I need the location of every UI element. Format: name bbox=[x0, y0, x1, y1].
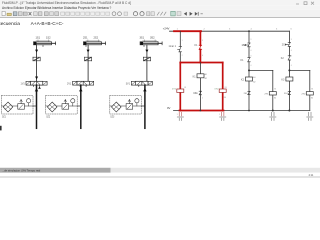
svg-text:1: 1 bbox=[219, 114, 220, 116]
valve 3V1 (5/2 way) bbox=[126, 81, 153, 86]
limit switch 2S2 bbox=[285, 43, 291, 47]
relay coil K3 bbox=[281, 77, 293, 82]
pin number specks bbox=[182, 39, 314, 99]
start button 1mar1 bbox=[178, 46, 182, 52]
filter bbox=[3, 102, 13, 112]
toolbar bbox=[0, 10, 320, 18]
junction dots bottom bbox=[200, 110, 202, 112]
svg-text:0V: 0V bbox=[167, 106, 171, 110]
air service unit 0Z2 (dashed box) bbox=[46, 96, 81, 119]
title bar bbox=[0, 0, 320, 5]
cylinder 1A1 bbox=[34, 40, 56, 45]
air service unit 0Z3 (dashed box) bbox=[110, 96, 145, 119]
svg-text:2S2: 2S2 bbox=[94, 36, 99, 40]
contact 2S1 on rung D bbox=[248, 91, 251, 94]
rung numbers bbox=[177, 28, 293, 30]
bottom rail black bbox=[174, 110, 310, 112]
svg-text:0Z3: 0Z3 bbox=[110, 117, 115, 119]
svg-text:83: 83 bbox=[225, 87, 227, 89]
flow control valve 1V2 bbox=[33, 57, 40, 61]
svg-text:3V1: 3V1 bbox=[126, 83, 131, 86]
svg-text:+24V: +24V bbox=[163, 26, 170, 30]
svg-text:1: 1 bbox=[177, 114, 178, 116]
svg-text:1S1: 1S1 bbox=[193, 91, 198, 95]
rung A lower red wire bbox=[179, 63, 181, 111]
terminal symbol below rail at 1Y1 bbox=[177, 112, 184, 120]
wire cylinder1 to valve1 bbox=[36, 45, 38, 81]
valve 1V1 (5/2 way) bbox=[21, 81, 48, 88]
rung B lower black wire bbox=[199, 63, 201, 111]
red horizontal wire y62.5 bbox=[180, 62, 222, 64]
svg-text:4: 4 bbox=[250, 65, 251, 67]
svg-text:A+A-B+B-C+C-: A+A-B+B-C+C- bbox=[31, 21, 64, 27]
cylinder 2A1 bbox=[83, 40, 105, 45]
solenoid coil 1Y2 bbox=[214, 88, 226, 99]
svg-text:3: 3 bbox=[291, 55, 292, 57]
svg-text:3S1: 3S1 bbox=[140, 36, 145, 40]
top rail black bbox=[170, 30, 290, 32]
svg-text:83: 83 bbox=[311, 89, 313, 91]
svg-text:84: 84 bbox=[311, 98, 313, 100]
svg-text:2: 2 bbox=[202, 98, 203, 100]
svg-text:1S2: 1S2 bbox=[46, 36, 51, 40]
svg-text:1mar 1: 1mar 1 bbox=[169, 45, 177, 48]
wire cylinder3 to valve3 bbox=[146, 45, 148, 81]
branch E2 vertical bbox=[309, 70, 311, 110]
canvas bbox=[0, 21, 64, 27]
svg-text:Archivo Edicion Ejecutar: Archivo Edicion Ejecutar Biblioteca Inse… bbox=[2, 6, 112, 10]
svg-text:83: 83 bbox=[184, 87, 186, 89]
contact 1S1 on rung B bbox=[199, 91, 202, 95]
solenoid coil 2Y2 bbox=[302, 92, 314, 100]
gauge bbox=[27, 99, 31, 103]
contact K1 (closed, red) bbox=[199, 45, 202, 49]
contact K2 on rung E bbox=[288, 56, 291, 60]
svg-text:1S2: 1S2 bbox=[242, 43, 247, 47]
flow arrow bbox=[87, 50, 90, 53]
svg-text:3S2: 3S2 bbox=[150, 36, 155, 40]
bottom rail red energized segment bbox=[180, 110, 224, 112]
wire cylinder2 to valve2 bbox=[87, 45, 89, 81]
rung E wire bbox=[288, 31, 290, 42]
status bar bbox=[0, 168, 320, 177]
svg-text:A2: A2 bbox=[253, 80, 255, 83]
svg-text:1V1: 1V1 bbox=[21, 83, 26, 86]
terminal symbol below rail at 2Y2 bbox=[307, 112, 313, 120]
svg-text:A1: A1 bbox=[205, 73, 207, 76]
svg-text:4: 4 bbox=[291, 65, 292, 67]
svg-text:3: 3 bbox=[291, 39, 292, 41]
terminal symbol below rail at 1Y2 bbox=[219, 112, 226, 120]
rung B red upper wire bbox=[199, 31, 201, 45]
rung C red wire bbox=[222, 63, 224, 111]
air service unit 0Z1 (dashed box) bbox=[2, 96, 37, 119]
branch D2 horizontal bbox=[249, 69, 273, 71]
solenoid coil 2Y1 bbox=[265, 92, 277, 100]
flow arrow bbox=[35, 50, 38, 53]
valve 2V1 (5/2 way) bbox=[67, 81, 94, 86]
svg-text:3: 3 bbox=[250, 55, 251, 57]
svg-text:Secuencia: Secuencia bbox=[0, 21, 20, 27]
terminal symbol below rail at 2Y1 bbox=[270, 112, 276, 120]
svg-text:2: 2 bbox=[182, 55, 183, 57]
svg-text:4:11: 4:11 bbox=[309, 173, 314, 177]
rung D wire bbox=[248, 31, 250, 43]
flow control valve 3V2 bbox=[143, 57, 150, 61]
svg-text:84: 84 bbox=[274, 98, 276, 100]
svg-text:2V1: 2V1 bbox=[67, 83, 72, 86]
svg-text:3: 3 bbox=[250, 39, 251, 41]
svg-text:83: 83 bbox=[274, 89, 276, 91]
supply pipe group2 bbox=[80, 85, 82, 128]
flow arrow 2 bbox=[35, 77, 38, 80]
svg-text:2S1: 2S1 bbox=[83, 36, 88, 40]
svg-text:1S1: 1S1 bbox=[36, 36, 41, 40]
supply pipe group1 bbox=[36, 85, 38, 128]
svg-text:84: 84 bbox=[224, 97, 226, 99]
svg-text:FluidSIM-P - [4° Trabajo Unive: FluidSIM-P - [4° Trabajo Universidad Ele… bbox=[2, 1, 131, 5]
flow control valve 2V2 bbox=[85, 57, 92, 61]
top rail red energized segment bbox=[174, 30, 201, 32]
rung A upper wire bbox=[179, 31, 181, 46]
svg-text:A1: A1 bbox=[253, 76, 255, 79]
svg-text:4: 4 bbox=[291, 50, 292, 52]
cylinder 3A1 bbox=[140, 40, 162, 45]
junction dot red bbox=[199, 62, 201, 64]
supply pipe group3 bbox=[144, 85, 146, 128]
contact K1 on rung D bbox=[248, 58, 251, 62]
compressor at left edge bbox=[0, 126, 2, 131]
svg-text:A2: A2 bbox=[205, 77, 207, 80]
junction dot bbox=[248, 69, 250, 71]
branch E2 horizontal bbox=[289, 69, 309, 71]
flow arrow bbox=[145, 50, 148, 53]
svg-text:4: 4 bbox=[202, 55, 203, 57]
svg-text:...de simulacion | 0% Tiempo r: ...de simulacion | 0% Tiempo real bbox=[2, 169, 41, 173]
junction dot bbox=[288, 69, 290, 71]
contact 3S1 on rung E bbox=[288, 91, 291, 94]
branch D2 vertical bbox=[272, 70, 274, 110]
svg-text:3: 3 bbox=[202, 40, 203, 42]
svg-text:1: 1 bbox=[182, 40, 183, 42]
svg-text:2S2: 2S2 bbox=[282, 43, 287, 46]
relay coil K1 bbox=[193, 73, 207, 80]
regulator bbox=[18, 104, 25, 110]
svg-text:4: 4 bbox=[250, 50, 251, 52]
solenoid coil 1Y1 bbox=[172, 88, 184, 92]
limit switch 1S2 bbox=[245, 43, 251, 47]
relay coil K2 bbox=[241, 76, 256, 83]
menu bar bbox=[0, 5, 320, 10]
